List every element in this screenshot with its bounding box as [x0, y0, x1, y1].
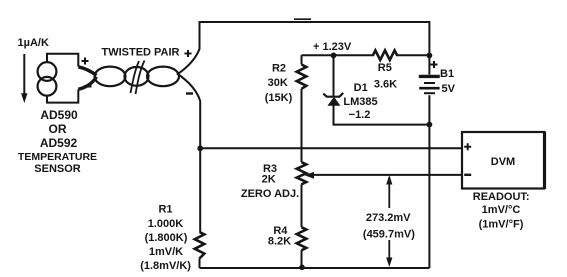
svg-text:5V: 5V — [442, 83, 456, 95]
label + (twisted pair right) — [185, 50, 192, 57]
label + (DVM) — [464, 143, 471, 150]
svg-text:1mV/°C: 1mV/°C — [482, 204, 521, 216]
svg-text:DVM: DVM — [491, 156, 515, 168]
diode D1 cathode wire — [333, 55, 335, 96]
svg-text:R5: R5 — [378, 62, 392, 74]
resistor R1 — [195, 232, 205, 258]
node +1.23V junction — [331, 53, 337, 59]
label − (twisted pair right) — [186, 92, 193, 94]
svg-text:OR: OR — [49, 122, 67, 136]
twisted pair break marks — [131, 61, 145, 95]
label − (AD590) — [84, 85, 92, 87]
svg-text:B1: B1 — [440, 68, 454, 80]
arrow 1uA/K — [23, 54, 25, 94]
wire AD590 − lead — [78, 77, 96, 90]
resistor R4 — [297, 227, 307, 250]
junction D1 anode to rail — [427, 122, 433, 128]
svg-text:TWISTED PAIR: TWISTED PAIR — [101, 47, 179, 59]
svg-text:D1: D1 — [354, 82, 368, 94]
wire DVM plus (y148) — [200, 147, 462, 149]
svg-text:READOUT:: READOUT: — [473, 191, 530, 203]
wire AD590 loop — [47, 54, 78, 103]
svg-text:LM385: LM385 — [343, 96, 377, 108]
dimension arrow upper — [388, 177, 390, 208]
diode D1 zener symbol — [323, 93, 343, 97]
svg-text:1.000K: 1.000K — [148, 218, 184, 230]
svg-text:TEMPERATURE: TEMPERATURE — [18, 151, 97, 163]
wire bottom rail — [200, 267, 430, 269]
svg-text:(15K): (15K) — [265, 92, 293, 104]
diode D1 anode wire — [334, 105, 430, 125]
svg-text:(1.800K): (1.800K) — [145, 232, 188, 244]
svg-text:30K: 30K — [268, 77, 288, 89]
svg-text:273.2mV: 273.2mV — [366, 212, 411, 224]
label + (AD590) — [82, 58, 89, 65]
svg-text:3.6K: 3.6K — [374, 79, 397, 91]
wire AD590 + lead — [78, 67, 96, 76]
label R1 value block — [140, 204, 191, 273]
battery B1 — [419, 75, 440, 78]
svg-text:8.2K: 8.2K — [268, 236, 291, 248]
svg-text:AD590: AD590 — [40, 108, 78, 122]
svg-text:−1.2: −1.2 — [349, 109, 371, 121]
svg-text:R2: R2 — [272, 63, 286, 75]
dimension arrow lower — [388, 240, 390, 259]
svg-text:2K: 2K — [262, 174, 276, 186]
wire +1.23V bus — [302, 54, 430, 56]
junction R4 bottom — [299, 265, 305, 271]
svg-text:(459.7mV): (459.7mV) — [363, 229, 415, 241]
junction battery top — [427, 53, 433, 59]
resistor R2 — [301, 55, 303, 64]
svg-text:ZERO ADJ.: ZERO ADJ. — [241, 188, 299, 200]
twisted pair — [95, 67, 126, 87]
svg-text:1µA/K: 1µA/K — [18, 37, 49, 49]
label R4 — [268, 225, 291, 248]
R3 wiper arrow — [305, 172, 315, 179]
label − (DVM) — [464, 174, 471, 176]
svg-text:SENSOR: SENSOR — [34, 163, 81, 175]
svg-text:(1.8mV/K): (1.8mV/K) — [140, 260, 191, 272]
resistor R3 (pot) — [297, 162, 307, 184]
svg-text:1mV/K: 1mV/K — [149, 246, 183, 258]
resistor R5 — [373, 50, 397, 60]
label + (battery) — [431, 61, 438, 68]
DVM box — [462, 132, 544, 189]
svg-text:AD592: AD592 — [40, 136, 78, 150]
wire right rail — [428, 21, 430, 268]
current source AD590 circles — [38, 62, 57, 81]
label R3 — [241, 163, 299, 200]
wire top rail — [200, 21, 430, 23]
wire left rail lower (− side) — [177, 74, 200, 233]
wire left rail upper (+ side) — [177, 21, 200, 75]
svg-text:+ 1.23V: + 1.23V — [313, 41, 352, 53]
junction node left (DVM+ tap) — [197, 145, 203, 151]
label R2 — [265, 63, 293, 104]
wire DVM minus / wiper (y175) — [313, 174, 462, 176]
svg-text:R1: R1 — [158, 204, 172, 216]
svg-text:(1mV/°F): (1mV/°F) — [479, 219, 524, 231]
